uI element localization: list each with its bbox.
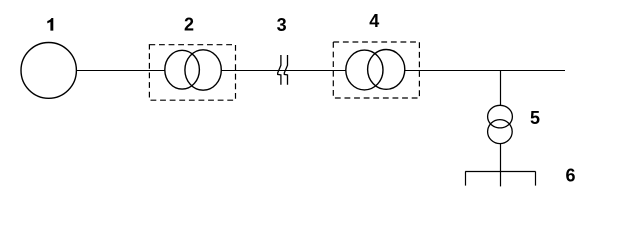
load 6 feeder bar [465,171,535,173]
wire transformer 5 to load 6 [500,144,502,187]
label 1 [47,18,53,31]
svg-text:3: 3 [277,15,287,35]
node junction wire down to transformer 5 [500,71,502,106]
svg-text:2: 2 [184,15,194,35]
transmission line 3 break mark left [278,55,281,85]
transmission line 3 break mark right [284,55,287,85]
generator 1 [21,43,76,99]
load 6 right prong [535,172,537,186]
svg-text:5: 5 [530,108,540,128]
svg-text:4: 4 [369,11,379,31]
transformer 4 secondary winding [368,50,405,90]
transformer 5 secondary winding [488,120,513,144]
transformer 2 dashed box [149,45,235,100]
transformer 2 secondary winding [185,50,221,90]
transformer 2 primary winding [165,50,200,89]
load 6 left prong [465,172,467,186]
transformer 4 dashed box [333,42,419,98]
wire transformer 2 to transformer 4 (through line 3) [221,70,346,72]
transformer 5 primary winding [488,105,513,128]
wire transformer 4 to line end [405,70,565,72]
transformer 4 primary winding [346,50,383,90]
svg-text:6: 6 [565,166,575,186]
wire generator to transformer 2 [76,70,165,72]
